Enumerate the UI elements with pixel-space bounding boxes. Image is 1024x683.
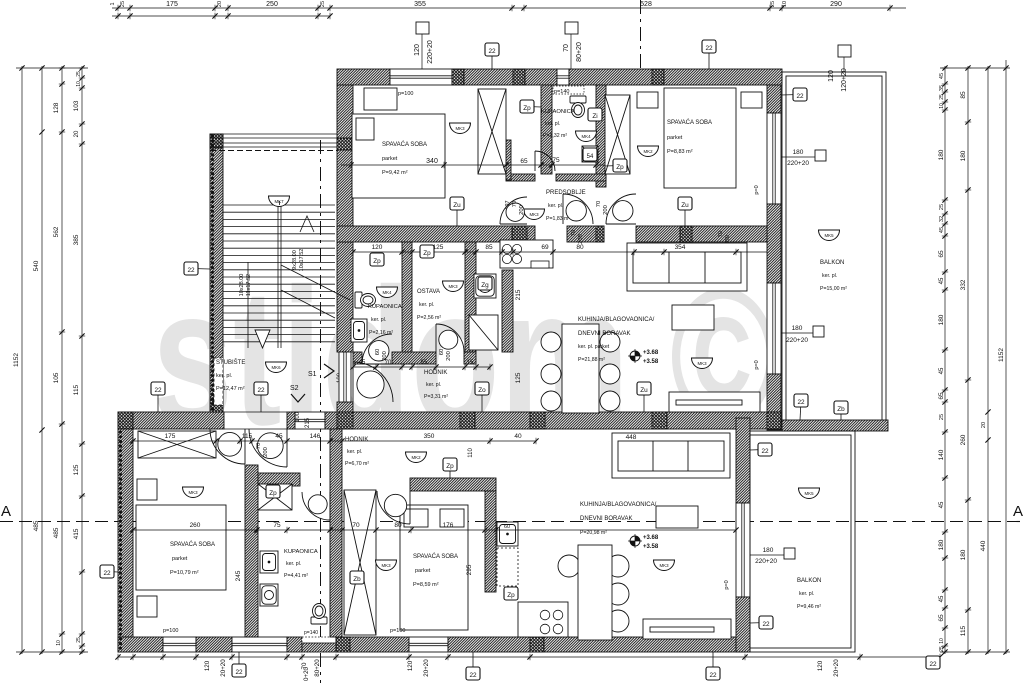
- svg-text:Zb: Zb: [837, 406, 845, 413]
- bedroom2 top wall: [410, 478, 496, 491]
- lower kitchen hob burners: [540, 610, 563, 634]
- svg-text:Zp: Zp: [446, 463, 454, 470]
- box 22 balcony wall a: [794, 394, 808, 420]
- upper kitchen hob burners: [502, 244, 549, 268]
- bathroom parapet dotted: [553, 86, 584, 94]
- bedroom2 pillow b: [440, 509, 464, 527]
- middle bathroom toilet: [355, 292, 376, 308]
- svg-text:MK2: MK2: [411, 455, 421, 460]
- svg-text:P=9,46 m²: P=9,46 m²: [797, 604, 821, 610]
- central wall lower: [330, 429, 342, 637]
- bedroom2 nightstand left: [637, 92, 658, 108]
- balcony window 180 upper: [767, 113, 781, 204]
- svg-text:415: 415: [73, 528, 80, 539]
- svg-text:P=10,79 m²: P=10,79 m²: [170, 570, 199, 576]
- svg-text:P=1,83 m²: P=1,83 m²: [546, 216, 570, 222]
- predsoblje door swing 3: [606, 194, 636, 224]
- wall column block: [736, 637, 750, 652]
- upper TV cabinet: [669, 392, 760, 412]
- svg-text:22: 22: [797, 399, 805, 406]
- lower bedroom1 wardrobe: [138, 431, 216, 458]
- lower south wall w2: [196, 637, 232, 652]
- wall column block: [513, 69, 525, 85]
- svg-text:SPAVAĆA SOBA: SPAVAĆA SOBA: [382, 141, 427, 148]
- lower coffee table: [656, 506, 698, 528]
- svg-text:115: 115: [73, 384, 80, 395]
- bedroom1 bed: [136, 505, 226, 590]
- svg-text:70: 70: [718, 231, 724, 237]
- upper kitchen counter: [500, 240, 553, 268]
- svg-text:215: 215: [305, 417, 311, 428]
- bedroom2 bed: [664, 88, 736, 188]
- wall column block: [452, 69, 464, 85]
- svg-text:120: 120: [372, 244, 383, 251]
- svg-text:p=140: p=140: [554, 89, 569, 95]
- svg-text:120: 120: [204, 660, 211, 671]
- svg-text:ker. pl.: ker. pl.: [286, 561, 301, 567]
- svg-text:+3.58: +3.58: [643, 544, 659, 550]
- svg-text:KUPAONICA: KUPAONICA: [284, 549, 318, 555]
- svg-text:220+20: 220+20: [755, 558, 777, 565]
- middle bathroom sink: [377, 287, 398, 298]
- svg-text:65: 65: [938, 614, 945, 622]
- stair direction triangle: [255, 330, 270, 348]
- svg-text:180: 180: [938, 314, 945, 325]
- right outer wall bottom segment: [767, 374, 781, 430]
- window spec 180/220+20 lower: [750, 548, 795, 559]
- bedroom1 nightstand a: [137, 479, 157, 500]
- svg-text:80+20: 80+20: [314, 659, 321, 677]
- svg-text:85: 85: [485, 244, 493, 251]
- svg-text:250: 250: [266, 1, 278, 8]
- svg-text:PREDSOBLJE: PREDSOBLJE: [546, 190, 586, 196]
- svg-text:25: 25: [770, 1, 776, 7]
- left dimension ticks: [19, 65, 85, 654]
- upper bathroom sink MK4: [576, 131, 597, 142]
- box Zu living upper: [637, 382, 651, 412]
- wall column block: [118, 637, 133, 652]
- svg-text:45: 45: [275, 433, 283, 440]
- box Zu bedroom2: [678, 197, 692, 226]
- svg-text:S2: S2: [290, 385, 299, 392]
- svg-text:Zp: Zp: [523, 105, 531, 112]
- stair rail stem: [279, 201, 281, 205]
- wall between bedroom1 and bathroom: [245, 465, 258, 637]
- svg-text:ker. pl.: ker. pl.: [548, 203, 563, 209]
- svg-text:KUPAONICA: KUPAONICA: [368, 304, 402, 310]
- lower bathroom low wall hatch: [302, 643, 336, 652]
- svg-text:Zu: Zu: [681, 202, 689, 209]
- left wall below entry door: [337, 402, 353, 426]
- svg-text:176: 176: [443, 522, 454, 529]
- svg-text:25: 25: [120, 1, 126, 7]
- svg-text:MK3: MK3: [529, 212, 539, 217]
- wall below storage left: [392, 352, 436, 364]
- svg-text:22: 22: [796, 93, 804, 100]
- svg-text:20: 20: [217, 1, 223, 7]
- lower washing machine: [260, 584, 278, 606]
- lower window 1: [163, 637, 196, 652]
- predsoblje door swing 1: [500, 197, 527, 224]
- bottom dimension chain: [115, 654, 942, 660]
- svg-text:Zp: Zp: [373, 258, 381, 265]
- box Zp wardrobe2: [605, 159, 627, 172]
- svg-text:BALKON: BALKON: [797, 578, 821, 584]
- box 22 balcony upper: [781, 88, 807, 101]
- lower east wall upper: [736, 418, 750, 503]
- lower bathroom top wall: [258, 473, 300, 486]
- svg-text:485: 485: [53, 527, 60, 538]
- middle wall band west: [118, 412, 224, 429]
- lower bathroom shower: [258, 484, 292, 510]
- svg-text:10: 10: [939, 103, 945, 109]
- svg-text:10: 10: [76, 81, 82, 87]
- svg-text:MK3: MK3: [381, 563, 391, 568]
- svg-text:175: 175: [165, 433, 176, 440]
- svg-text:35: 35: [939, 85, 945, 91]
- svg-text:STUBIŠTE: STUBIŠTE: [216, 359, 245, 366]
- svg-text:200: 200: [446, 351, 452, 361]
- svg-text:85: 85: [960, 91, 967, 99]
- svg-text:ker. pl.: ker. pl.: [216, 373, 233, 379]
- box 22 top a: [485, 43, 499, 69]
- box Zp middle bath: [370, 253, 384, 266]
- window spec 120/120+20 top-right: [838, 45, 851, 72]
- upper apartment entry door opening: [339, 352, 351, 402]
- svg-text:MK3: MK3: [448, 284, 458, 289]
- wall column block: [337, 228, 353, 242]
- svg-text:200: 200: [263, 447, 269, 457]
- wardrobe bedroom2: [605, 95, 630, 174]
- box Zp upper bath: [520, 100, 541, 113]
- lower dining table: [558, 545, 629, 640]
- bedroom2 lamp lower: [376, 560, 397, 571]
- middle bathroom door swing: [362, 334, 392, 364]
- svg-text:P=3,31 m²: P=3,31 m²: [424, 394, 448, 400]
- lower entry door swing: [249, 429, 287, 467]
- svg-text:69: 69: [541, 244, 549, 251]
- lower level marker: [628, 534, 642, 548]
- lower living sofa: [612, 433, 730, 478]
- svg-text:+3.58: +3.58: [643, 359, 659, 365]
- svg-text:80+20: 80+20: [576, 42, 583, 62]
- svg-text:MK6: MK6: [271, 365, 281, 370]
- svg-text:60: 60: [439, 349, 445, 355]
- stair landing edge lines: [224, 412, 287, 429]
- svg-text:70: 70: [352, 522, 360, 529]
- svg-text:MK3: MK3: [697, 361, 707, 366]
- lower south wall w5: [448, 637, 750, 652]
- svg-text:45: 45: [939, 595, 945, 602]
- svg-text:p=100: p=100: [163, 628, 178, 634]
- upper entry door swing: [353, 362, 393, 402]
- svg-text:BALKON: BALKON: [820, 260, 844, 266]
- lower living lamp: [654, 560, 675, 571]
- svg-text:KUHINJA/BLAGOVAONICA/: KUHINJA/BLAGOVAONICA/: [580, 502, 657, 508]
- box label 22 left of stairs: [151, 382, 165, 412]
- interior wall predsoblje bottom: [567, 226, 604, 242]
- wall column block: [210, 134, 223, 148]
- wall beside wardrobe: [506, 140, 511, 180]
- svg-text:1: 1: [110, 2, 116, 5]
- lower kitchen dashed appliance: [497, 548, 518, 586]
- svg-text:25: 25: [939, 204, 945, 210]
- insulation dots west wall lower: [119, 432, 122, 650]
- svg-text:200: 200: [578, 234, 584, 244]
- box label Zg on washing machine: [478, 277, 492, 290]
- wall below storage right: [464, 352, 476, 364]
- svg-text:65: 65: [938, 250, 945, 258]
- svg-text:45: 45: [939, 73, 945, 79]
- svg-text:20+20: 20+20: [423, 659, 430, 677]
- svg-text:parket: parket: [172, 556, 188, 562]
- svg-text:25: 25: [76, 71, 82, 77]
- svg-text:0+20: 0+20: [303, 666, 310, 680]
- kitchen dimension line: [350, 249, 767, 255]
- lower kitchen counter: [518, 602, 568, 637]
- svg-text:9x28.00: 9x28.00: [292, 250, 298, 270]
- svg-text:355: 355: [414, 1, 426, 8]
- upper balcony outline: [782, 72, 886, 422]
- svg-text:parket: parket: [415, 568, 431, 574]
- upper level marker: [628, 349, 642, 363]
- svg-text:P=15,00 m²: P=15,00 m²: [820, 286, 847, 292]
- svg-text:DNEVNI BORAVAK: DNEVNI BORAVAK: [580, 516, 632, 522]
- svg-text:ker. pl.: ker. pl.: [426, 382, 441, 388]
- lower south wall w4: [336, 637, 409, 652]
- lower bathroom washbasin: [260, 551, 278, 573]
- svg-text:562: 562: [53, 226, 60, 237]
- lower kitchen sink: [497, 522, 518, 546]
- svg-text:parket: parket: [382, 156, 398, 162]
- wall column block: [337, 412, 353, 429]
- svg-text:45: 45: [359, 360, 366, 366]
- svg-text:70: 70: [571, 230, 577, 236]
- svg-text:20+20: 20+20: [220, 659, 227, 677]
- svg-text:10x28.00: 10x28.00: [239, 274, 245, 297]
- wall column block: [530, 412, 545, 429]
- lower bathroom window parapet: [302, 637, 336, 652]
- svg-text:260: 260: [190, 522, 201, 529]
- svg-text:220+20: 220+20: [787, 160, 809, 167]
- interior wall below bedroom 2: [636, 226, 767, 242]
- svg-text:ker. pl.: ker. pl.: [347, 449, 362, 455]
- svg-text:180: 180: [792, 325, 803, 332]
- box label Zp shower: [266, 485, 280, 498]
- top dimension chain: [112, 5, 906, 11]
- svg-text:245: 245: [235, 570, 242, 581]
- section line S2 vertical dash-dot: [320, 140, 322, 683]
- svg-text:SPAVAĆA SOBA: SPAVAĆA SOBA: [170, 541, 215, 548]
- svg-text:KUPAONICA: KUPAONICA: [541, 109, 575, 115]
- right dimension chain lines: [940, 60, 1010, 654]
- hall wall stub: [353, 352, 362, 364]
- svg-text:10x17.52: 10x17.52: [299, 249, 305, 272]
- bedroom1 lamp MK3: [450, 123, 471, 134]
- svg-text:MK4: MK4: [382, 290, 392, 295]
- predsoblje top wall right: [556, 174, 606, 181]
- svg-text:p=140: p=140: [304, 630, 318, 636]
- box Zo hall: [475, 382, 489, 412]
- ostava lamp: [443, 281, 464, 292]
- predsoblje top wall left: [506, 174, 535, 181]
- svg-text:103: 103: [73, 100, 80, 111]
- bedroom1 lamp lower: [183, 487, 204, 498]
- svg-text:MK3: MK3: [659, 563, 669, 568]
- svg-text:22: 22: [488, 48, 496, 55]
- box Zu bedroom1: [450, 197, 464, 226]
- upper coffee table: [672, 305, 714, 330]
- bedroom2 nightstand right: [741, 92, 762, 108]
- window spec 180/220+20 upper a: [781, 150, 826, 161]
- svg-text:20: 20: [74, 130, 80, 137]
- window spec 180/220+20 upper b: [781, 326, 824, 337]
- svg-text:p=0: p=0: [724, 580, 730, 589]
- svg-text:25: 25: [320, 1, 326, 7]
- balcony window 180 lower: [767, 283, 781, 374]
- svg-text:P=12,47 m²: P=12,47 m²: [216, 386, 245, 392]
- svg-text:20+20: 20+20: [833, 659, 840, 677]
- svg-text:ker. pl.: ker. pl.: [419, 302, 434, 308]
- wall column block: [512, 226, 527, 242]
- svg-text:P=8,59 m²: P=8,59 m²: [413, 582, 439, 588]
- svg-text:115: 115: [242, 433, 253, 440]
- svg-text:Zp: Zp: [507, 592, 515, 599]
- svg-text:ker. pl. parket: ker. pl. parket: [578, 344, 610, 350]
- box Zb balcony wall: [834, 401, 848, 420]
- svg-text:220+20: 220+20: [427, 40, 434, 64]
- corridor lamp lower: [406, 452, 427, 463]
- wall between bathroom and storage: [402, 242, 412, 364]
- svg-text:+3.68: +3.68: [643, 535, 659, 541]
- svg-text:DNEVNI BORAVAK: DNEVNI BORAVAK: [578, 331, 630, 337]
- box 22 bottom b: [466, 652, 480, 680]
- bedroom1 desk: [364, 88, 397, 110]
- wall column block: [210, 398, 223, 412]
- svg-text:75: 75: [552, 157, 560, 164]
- wall column block: [652, 69, 664, 85]
- svg-text:OSTAVA: OSTAVA: [417, 289, 440, 295]
- svg-text:22: 22: [235, 669, 243, 676]
- stair treads: [223, 205, 335, 348]
- section axis A-A dashed: [0, 521, 1024, 523]
- window spec 120/220+20 top-left: [416, 22, 429, 69]
- svg-text:p=100: p=100: [390, 628, 405, 634]
- svg-text:120: 120: [817, 660, 824, 671]
- upper bathroom toilet: [570, 96, 586, 118]
- wall right of storage: [465, 242, 476, 352]
- svg-text:25: 25: [76, 637, 82, 643]
- box label Zb wardrobe: [350, 571, 364, 584]
- bedroom2 bed lower: [400, 505, 468, 630]
- svg-text:10: 10: [939, 638, 945, 644]
- svg-text:A: A: [1, 503, 11, 520]
- predsoblje lamp: [524, 209, 545, 220]
- svg-text:ker. pl.: ker. pl.: [799, 591, 814, 597]
- stairwell dashed void line: [210, 150, 337, 152]
- svg-text:65: 65: [421, 360, 428, 366]
- svg-text:45: 45: [939, 277, 945, 284]
- bedroom2 lamp MK2: [638, 146, 659, 157]
- svg-text:20: 20: [981, 422, 987, 428]
- right outer wall upper segment: [767, 85, 781, 113]
- wall column block: [596, 226, 604, 242]
- svg-text:ker. pl.: ker. pl.: [371, 317, 386, 323]
- svg-text:180: 180: [793, 149, 804, 156]
- svg-text:80: 80: [394, 522, 402, 529]
- lower window 2: [232, 637, 287, 652]
- lower bathroom door swing: [302, 492, 330, 520]
- bathroom left wall: [541, 85, 552, 174]
- svg-text:P=20,98 m²: P=20,98 m²: [580, 530, 607, 536]
- svg-text:parket: parket: [667, 135, 683, 141]
- lower balcony lamp: [799, 488, 820, 499]
- svg-text:332: 332: [960, 279, 967, 290]
- outer wall top right: [569, 69, 782, 85]
- svg-text:295: 295: [466, 564, 473, 575]
- svg-text:p=100: p=100: [398, 91, 413, 97]
- svg-text:70: 70: [256, 443, 262, 449]
- svg-text:25: 25: [939, 646, 945, 652]
- svg-text:P=1,32 m²: P=1,32 m²: [543, 133, 567, 139]
- svg-text:22: 22: [257, 387, 265, 394]
- svg-text:45: 45: [939, 367, 945, 374]
- svg-text:220+20: 220+20: [786, 337, 808, 344]
- svg-text:+3.68: +3.68: [643, 350, 659, 356]
- svg-text:140: 140: [938, 449, 945, 460]
- svg-text:260: 260: [960, 434, 967, 445]
- svg-text:120: 120: [407, 660, 414, 671]
- svg-text:p=0: p=0: [754, 185, 760, 194]
- svg-text:22: 22: [154, 387, 162, 394]
- svg-text:p=0: p=0: [754, 360, 760, 369]
- box 22 lower east b: [750, 616, 773, 629]
- svg-text:1152: 1152: [998, 348, 1005, 362]
- svg-text:200: 200: [603, 205, 609, 215]
- svg-text:350: 350: [424, 433, 435, 440]
- box 22 lower east a: [750, 443, 772, 456]
- svg-text:80: 80: [576, 244, 584, 251]
- svg-text:25: 25: [939, 414, 945, 420]
- svg-text:P=4,41 m²: P=4,41 m²: [284, 573, 308, 579]
- svg-text:Zu: Zu: [453, 202, 461, 209]
- wall column block: [680, 226, 692, 242]
- lower balcony window 180: [736, 503, 750, 597]
- upper bathroom door swing: [535, 151, 555, 171]
- wall column block: [118, 412, 133, 429]
- section line S1 vertical dash-dot top: [640, 0, 642, 84]
- svg-text:485: 485: [33, 520, 40, 531]
- wall column block: [460, 412, 475, 429]
- svg-text:MK3: MK3: [455, 126, 465, 131]
- svg-text:125: 125: [515, 372, 522, 383]
- svg-text:105: 105: [53, 372, 60, 383]
- svg-text:385: 385: [73, 234, 80, 245]
- svg-text:22: 22: [929, 661, 937, 668]
- svg-text:11x17.52: 11x17.52: [246, 274, 252, 296]
- svg-text:180: 180: [938, 539, 945, 550]
- svg-text:P=21,88 m²: P=21,88 m²: [578, 357, 605, 363]
- lower south wall w1: [118, 637, 163, 652]
- insulation dots stair west wall: [211, 136, 214, 410]
- hall dimension line: [350, 364, 492, 370]
- svg-text:180: 180: [960, 150, 967, 161]
- lower apartment west wall: [118, 429, 133, 652]
- wardrobe bedroom1: [478, 89, 506, 174]
- upper balcony lamp: [819, 230, 840, 241]
- wall left of kitchen: [502, 270, 513, 352]
- section arrow S1: [324, 364, 334, 378]
